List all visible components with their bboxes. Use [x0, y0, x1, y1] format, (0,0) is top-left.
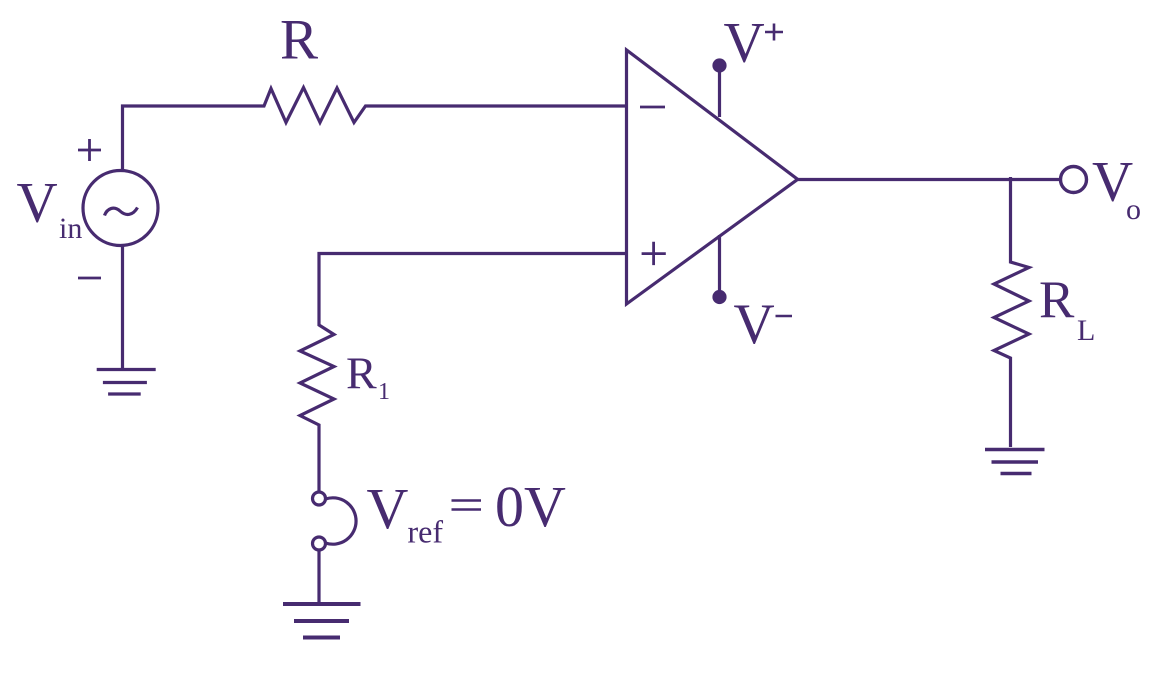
svg-text:V: V — [724, 12, 765, 75]
svg-text:ref: ref — [408, 514, 444, 550]
svg-text:V: V — [17, 172, 58, 235]
svg-text:R: R — [346, 348, 377, 399]
svg-text:V: V — [734, 293, 775, 356]
svg-text:in: in — [59, 212, 82, 245]
svg-text:1: 1 — [378, 379, 390, 405]
svg-text:V: V — [367, 476, 409, 541]
svg-text:o: o — [1126, 193, 1141, 226]
svg-text:R: R — [1039, 271, 1075, 329]
svg-text:0V: 0V — [495, 474, 566, 539]
svg-text:L: L — [1077, 314, 1095, 347]
svg-text:R: R — [280, 9, 318, 72]
